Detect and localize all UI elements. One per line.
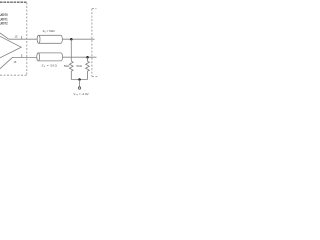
coax transmission line 2 body [38, 53, 62, 61]
comparator U1 triangle (clipped at left edge) [0, 36, 21, 58]
wire Qbar output to coax 2 [13, 56, 37, 58]
svg-text:VTT = -2.0V: VTT = -2.0V [73, 92, 88, 97]
svg-text:16: 16 [13, 60, 16, 64]
resistor R2 50 ohm zigzag [86, 57, 90, 79]
scope dashed box top border [92, 8, 97, 10]
svg-text:15: 15 [15, 35, 18, 39]
svg-text:50Ω: 50Ω [76, 64, 82, 68]
resistor R1 50 ohm zigzag [70, 61, 74, 79]
wire Q output to coax 1 [9, 38, 38, 40]
junction node on wire 2 [86, 56, 89, 59]
coax transmission line 2 left cap [37, 53, 40, 61]
wire bend into Qbar output from edge [0, 57, 13, 68]
svg-text:Z0 = 50Ω: Z0 = 50Ω [43, 29, 56, 34]
DUT dashed box top border [0, 1, 27, 3]
pin tick output Qbar [21, 54, 23, 57]
pin tick output Q [21, 36, 23, 39]
junction node on VTT rail [78, 78, 81, 81]
coax transmission line 1 left cap [37, 35, 40, 43]
wire coax 2 to scope [63, 56, 97, 58]
vertical wire node to R1 [70, 39, 72, 61]
svg-text:50Ω: 50Ω [64, 64, 70, 68]
coax transmission line 1 body [39, 35, 63, 43]
VTT terminal circle [78, 87, 80, 89]
junction node on wire 1 [70, 38, 73, 41]
VTT stub wire [79, 80, 81, 88]
wire coax 1 to scope [62, 38, 94, 40]
scope dashed box left border [91, 9, 93, 77]
wire bend into Q output from edge [0, 33, 9, 39]
svg-text:U6072: U6072 [0, 22, 8, 26]
DUT dashed box right border [26, 3, 28, 76]
scope dashed box bottom border [92, 76, 98, 78]
VTT rail wire [71, 79, 87, 81]
svg-text:Z0 = 50Ω: Z0 = 50Ω [42, 63, 58, 68]
DUT dashed box bottom border [0, 74, 27, 76]
